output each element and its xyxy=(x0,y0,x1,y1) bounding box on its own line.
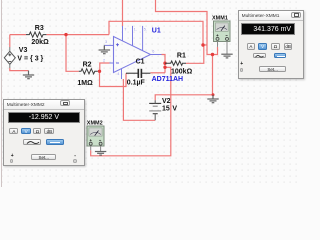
ground (V3) xyxy=(23,71,34,79)
svg-text:U1: U1 xyxy=(152,28,161,35)
wire node A down to R2 xyxy=(66,35,79,72)
wire C1 right to output riser xyxy=(150,72,165,74)
svg-text:R3: R3 xyxy=(35,25,44,32)
wire pin7 supply from top xyxy=(122,0,124,26)
pin 5 xyxy=(142,26,144,51)
junction dotX node A/R1/XMM1 xyxy=(201,43,204,46)
resistor R2 xyxy=(79,69,98,74)
wire battery top rail xyxy=(212,55,214,95)
wire inv node up to pin2 xyxy=(100,63,110,71)
sheet border xyxy=(1,0,3,187)
resistor R3 xyxy=(26,32,46,37)
wire inv node to C1 left xyxy=(100,71,127,86)
svg-text:V3: V3 xyxy=(19,47,28,54)
multimeter window XMM1 xyxy=(238,10,304,79)
junction inverting node xyxy=(98,70,101,73)
junction battery riser / XMM1 plus xyxy=(211,53,214,56)
wire output to riser xyxy=(162,55,166,73)
svg-text:XMM2: XMM2 xyxy=(87,121,103,127)
svg-text:2: 2 xyxy=(103,59,105,63)
svg-text:6: 6 xyxy=(152,49,154,53)
svg-text:R1: R1 xyxy=(177,52,186,59)
svg-text:5.: 5. xyxy=(144,28,147,32)
wire rail1 from top xyxy=(156,0,218,55)
svg-text:C1: C1 xyxy=(136,58,145,65)
junction output/XMM2 wire xyxy=(163,66,166,69)
XMM1 instrument icon xyxy=(214,21,231,54)
multimeter window XMM2 xyxy=(3,99,85,166)
pin 1 xyxy=(132,26,134,46)
junction battery top / ground xyxy=(212,93,215,96)
schematic sheet xyxy=(0,0,300,187)
op-amp U1 xyxy=(114,37,151,73)
wire R3 to node A to corner xyxy=(46,34,109,36)
capacitor C1 xyxy=(126,69,150,78)
svg-text:1.: 1. xyxy=(134,28,137,32)
junction node A xyxy=(64,33,67,36)
ground (battery top rail) xyxy=(207,95,218,103)
wire node A rail2 xyxy=(109,21,207,45)
svg-text:XMM1: XMM1 xyxy=(212,15,228,21)
svg-text:R2: R2 xyxy=(83,62,92,69)
pin 6 output xyxy=(151,54,162,56)
pin 3 xyxy=(104,44,113,46)
junction output/R1 xyxy=(163,62,166,65)
svg-text:100kΩ: 100kΩ xyxy=(171,69,193,76)
source V3 xyxy=(4,47,15,68)
svg-text:4: 4 xyxy=(117,72,119,76)
svg-text:0.1µF: 0.1µF xyxy=(127,79,146,86)
battery V2 xyxy=(149,100,161,120)
resistor R1 xyxy=(165,61,186,65)
ground (XMM2 minus) xyxy=(95,152,106,156)
svg-text:20kΩ: 20kΩ xyxy=(31,39,49,46)
svg-text:V2: V2 xyxy=(162,98,171,105)
svg-text:15: 15 xyxy=(162,105,170,112)
svg-text:3: 3 xyxy=(105,40,107,44)
svg-text:7: 7 xyxy=(124,28,126,32)
svg-text:1MΩ: 1MΩ xyxy=(77,80,93,87)
ground (XMM1 minus) xyxy=(221,54,232,58)
wire pin4 to battery bottom xyxy=(123,79,155,120)
pin number labels xyxy=(103,28,154,76)
svg-text:AD711AH: AD711AH xyxy=(152,76,184,83)
pin 4 xyxy=(121,69,123,79)
wire V3 bottom to ground xyxy=(10,68,29,71)
pin 2 xyxy=(110,62,114,64)
ground (op-amp +) xyxy=(99,45,110,53)
opamp +/- marks xyxy=(116,43,119,63)
pin 7 xyxy=(122,26,124,41)
svg-text:V = { 3 }: V = { 3 } xyxy=(17,55,43,62)
XMM2 instrument icon xyxy=(87,126,104,151)
labels xyxy=(17,25,192,112)
svg-text:V: V xyxy=(172,105,177,112)
wire R1 right riser to dotX xyxy=(186,45,204,63)
wire dot2 to long vertical xyxy=(91,67,171,156)
wire V3 riser xyxy=(9,35,11,47)
wire V3 top to R3 xyxy=(10,34,26,36)
